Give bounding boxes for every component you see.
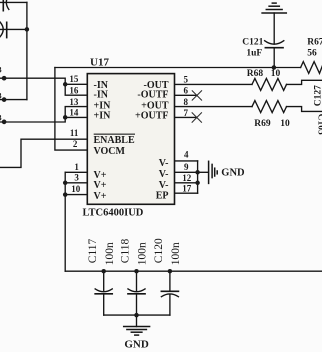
svg-text:12: 12 <box>182 173 192 183</box>
wire pin13 pin14 bracket <box>65 107 87 118</box>
svg-text:1: 1 <box>74 162 79 172</box>
svg-text:+OUTF: +OUTF <box>135 110 168 121</box>
svg-text:-IN: -IN <box>94 90 109 101</box>
resistor R68 <box>252 78 287 90</box>
svg-text:3: 3 <box>0 65 2 74</box>
capacitor C121 labels <box>242 37 263 58</box>
svg-text:1uF: 1uF <box>246 48 262 58</box>
wire node net2 <box>0 99 27 101</box>
capacitor C121 <box>265 41 284 48</box>
svg-text:2: 2 <box>73 139 78 149</box>
svg-text:V-: V- <box>159 169 169 180</box>
capacitor C118 labels (rotated) <box>120 238 149 265</box>
svg-text:GND: GND <box>221 167 245 178</box>
resistor R69 <box>252 101 287 113</box>
pin names right <box>135 80 169 201</box>
wire R69 output jog <box>287 107 322 112</box>
wire bottom bus <box>65 270 322 272</box>
svg-text:R67: R67 <box>307 37 322 47</box>
pin numbers right <box>182 75 192 194</box>
svg-text:7: 7 <box>184 108 189 118</box>
wire top rail <box>55 67 301 69</box>
svg-text:V+: V+ <box>94 191 107 202</box>
capacitor C118 <box>128 271 145 315</box>
wire <box>26 2 28 99</box>
wire R68 output jog <box>287 80 322 84</box>
node pin3 junction <box>63 181 68 186</box>
no-connect X pin6 <box>192 91 201 100</box>
svg-text:16: 16 <box>69 86 79 96</box>
resistor R67 labels <box>307 37 322 58</box>
svg-text:9: 9 <box>184 162 189 172</box>
wire ENABLE pin11 <box>0 139 87 167</box>
svg-text:-OUTF: -OUTF <box>137 90 168 101</box>
svg-text:56: 56 <box>307 48 317 58</box>
svg-text:13: 13 <box>69 97 79 107</box>
node junction <box>25 27 30 32</box>
ground (right, rotated) <box>209 161 218 183</box>
svg-text:4: 4 <box>184 150 189 160</box>
wire VOCM pin2 <box>55 68 87 151</box>
svg-text:VOCM: VOCM <box>94 146 126 157</box>
svg-text:R69: R69 <box>254 119 271 129</box>
ENABLE overline <box>94 134 135 135</box>
svg-text:6: 6 <box>184 86 189 96</box>
ground (bottom earth symbol) <box>124 327 150 336</box>
no-connect X pin7 <box>192 113 201 122</box>
node pin12 junction <box>195 181 200 186</box>
wire to bottom ground <box>136 315 138 326</box>
node pin9 junction <box>195 170 200 175</box>
wire <box>273 48 275 68</box>
svg-text:C117: C117 <box>87 238 99 263</box>
resistor R69 labels <box>254 119 290 129</box>
node C121 junction <box>272 65 277 70</box>
wire pin6 stub <box>175 94 197 96</box>
svg-text:LTC6400IUD: LTC6400IUD <box>83 207 144 218</box>
wire pin8 to R69 <box>175 106 253 108</box>
wire pin5 to R68 <box>175 83 253 85</box>
capacitor C117 labels (rotated) <box>87 238 116 265</box>
wire node net3 <box>0 117 65 122</box>
wire pin1 pin3 pin10 bracket <box>65 172 87 271</box>
svg-text:C105: C105 <box>316 114 322 135</box>
svg-text:100n: 100n <box>170 242 182 265</box>
svg-text:100n: 100n <box>137 242 149 265</box>
svg-text:11: 11 <box>70 128 79 138</box>
svg-text:10: 10 <box>271 69 281 79</box>
wire node net1 <box>0 78 65 84</box>
op-amp U17 (LTC6400IUD box) <box>87 74 174 205</box>
wire to GND <box>198 171 209 173</box>
svg-text:17: 17 <box>182 184 192 194</box>
svg-text:10: 10 <box>71 184 81 194</box>
svg-text:C120: C120 <box>153 238 165 263</box>
svg-text:U17: U17 <box>90 56 109 68</box>
svg-text:3: 3 <box>0 113 2 122</box>
wire <box>0 1 27 3</box>
capacitor (top-left, cut off) <box>3 0 9 11</box>
wire lower bus <box>104 314 170 316</box>
node pin14 junction <box>63 115 68 120</box>
svg-text:V-: V- <box>159 158 169 169</box>
node C118 junction <box>134 269 139 274</box>
svg-text:V+: V+ <box>94 180 107 191</box>
capacitor C117 <box>95 271 112 315</box>
svg-text:14: 14 <box>69 108 79 118</box>
svg-text:100n: 100n <box>104 242 116 265</box>
node net3 dot <box>2 120 7 125</box>
svg-text:V-: V- <box>159 180 169 191</box>
wire <box>0 28 27 30</box>
node C120 junction <box>168 269 173 274</box>
svg-text:C127: C127 <box>313 85 322 106</box>
capacitor C120 <box>161 271 178 315</box>
pin names left <box>94 80 136 202</box>
resistor R67 <box>301 62 322 74</box>
ground (top earth symbol) <box>262 3 286 13</box>
svg-text:3: 3 <box>74 172 79 182</box>
svg-text:5: 5 <box>184 75 189 85</box>
node C117 junction <box>101 269 106 274</box>
svg-text:10: 10 <box>280 119 290 129</box>
wire <box>273 13 275 44</box>
svg-text:ENABLE: ENABLE <box>94 135 135 146</box>
pin numbers left <box>69 74 80 194</box>
svg-text:R68: R68 <box>247 69 264 79</box>
svg-text:15: 15 <box>69 74 79 84</box>
capacitor C120 labels (rotated) <box>153 238 182 265</box>
node pin10 junction <box>63 192 68 197</box>
svg-text:C121: C121 <box>242 37 263 47</box>
svg-text:3: 3 <box>0 92 2 101</box>
node net2 dot <box>2 97 7 102</box>
wire pin4 pin9 pin12 pin17 bracket <box>175 161 198 193</box>
node pin15 junction <box>63 82 68 87</box>
capacitor (left edge, cut off) <box>0 22 7 38</box>
svg-text:GND: GND <box>124 338 149 350</box>
svg-text:8: 8 <box>184 97 189 107</box>
svg-text:V+: V+ <box>94 170 107 181</box>
node lower bus junction <box>134 313 139 318</box>
wire pin15 pin16 bracket <box>65 84 87 95</box>
node net1 dot <box>2 76 7 81</box>
svg-text:C118: C118 <box>120 238 132 263</box>
resistor R68 labels <box>247 69 281 79</box>
wire pin7 stub <box>175 116 197 118</box>
svg-text:EP: EP <box>156 191 169 202</box>
svg-text:+IN: +IN <box>94 110 112 121</box>
